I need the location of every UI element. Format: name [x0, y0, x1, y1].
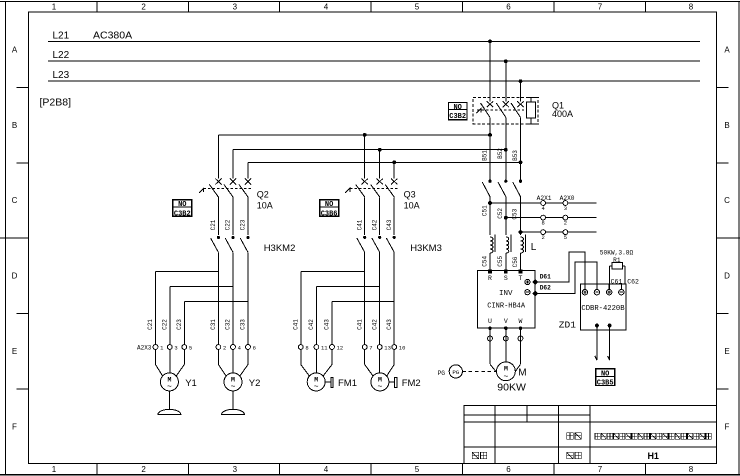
svg-text:E: E [12, 347, 17, 356]
title block outline [464, 406, 716, 464]
svg-text:C23: C23 [176, 319, 183, 330]
node feed taps on Q1 drops [488, 133, 492, 137]
svg-text:C43: C43 [386, 319, 393, 330]
bus L23 wire [48, 80, 700, 82]
svg-text:5: 5 [415, 3, 420, 12]
svg-text:8: 8 [689, 3, 694, 12]
svg-text:B: B [12, 121, 17, 130]
wire row phase3 [521, 231, 597, 233]
breaker Q1 linkage dashed [477, 109, 524, 111]
wire C62 [624, 266, 626, 284]
svg-text:V: V [504, 318, 508, 325]
motor Y1 lead wires [155, 349, 157, 364]
motor FM2 lead wires [364, 349, 366, 364]
svg-text:C42: C42 [308, 319, 315, 330]
svg-text:A2X3: A2X3 [137, 344, 152, 351]
feed wire phase3 to Q2 [248, 161, 521, 163]
motor Y2 circle [224, 373, 242, 391]
svg-text:A: A [12, 46, 18, 55]
svg-text:5: 5 [189, 344, 192, 351]
inverter input terminals R S T [488, 270, 492, 274]
svg-text:H3KM2: H3KM2 [264, 243, 296, 254]
svg-text:C42: C42 [371, 319, 378, 330]
motor FM2 brake [389, 381, 395, 383]
wire C61 [609, 266, 611, 290]
svg-text:12: 12 [337, 344, 344, 351]
wire end arrows [595, 356, 597, 360]
svg-text:Y2: Y2 [249, 378, 261, 389]
svg-text:NO: NO [178, 201, 186, 209]
svg-text:C3B2: C3B2 [174, 210, 191, 218]
node bus taps for Q1 [488, 39, 492, 43]
bus L22 wire [48, 60, 700, 62]
svg-text:5: 5 [564, 234, 567, 241]
tap wires to FM1 phase2 [316, 286, 379, 288]
svg-text:C54: C54 [482, 256, 489, 267]
svg-text:6: 6 [506, 465, 511, 474]
svg-text:ZD1: ZD1 [559, 320, 576, 331]
breaker Q3 operating handle [345, 188, 350, 193]
svg-text:4: 4 [324, 3, 329, 12]
svg-text:B51: B51 [482, 150, 489, 161]
svg-text:C41: C41 [356, 219, 363, 230]
svg-text:C3B2: C3B2 [449, 113, 466, 121]
tap wires to FM1 phase1 [301, 271, 365, 273]
svg-text:~: ~ [167, 383, 172, 392]
wires H3KM2 down to Y2 [217, 252, 219, 344]
svg-text:C42: C42 [371, 219, 378, 230]
svg-text:2: 2 [564, 220, 567, 227]
breaker Q1 dashed enclosure [473, 98, 538, 124]
tap wires to Y1 phase1 [156, 271, 219, 273]
svg-text:6: 6 [506, 3, 511, 12]
braking unit terminals [584, 284, 586, 290]
left margin zone tick marks [17, 86, 29, 88]
inverter INV box CINR-HB4A [477, 270, 535, 328]
svg-text:C21: C21 [147, 319, 154, 330]
node feed taps for Q3 [363, 133, 367, 137]
breaker Q3 linkage dashed [350, 187, 398, 189]
svg-text:C43: C43 [386, 219, 393, 230]
svg-text:L: L [531, 242, 537, 253]
wire D61 [535, 252, 585, 289]
svg-text:6: 6 [253, 344, 256, 351]
svg-text:D61: D61 [540, 273, 551, 280]
svg-text:11: 11 [321, 344, 328, 351]
terminal circles for motor Y1 [153, 345, 158, 350]
braking unit ZD1 box CDBR-4220B [580, 284, 626, 330]
encoder PG circle [449, 365, 462, 378]
svg-text:~: ~ [377, 383, 382, 392]
svg-text:2: 2 [141, 465, 146, 474]
svg-text:C41: C41 [356, 319, 363, 330]
contactor H3KM2 poles [217, 236, 220, 239]
svg-text:NO: NO [601, 371, 609, 379]
svg-text:C32: C32 [225, 319, 232, 330]
svg-text:[P2B8]: [P2B8] [40, 97, 72, 109]
svg-text:C3B5: C3B5 [597, 380, 614, 388]
svg-text:H3KM3: H3KM3 [410, 243, 442, 254]
right margin zone tick marks [716, 86, 728, 88]
wire row to A2X1/A2X0 terminals phase1 [490, 202, 597, 204]
svg-text:90KW: 90KW [497, 381, 526, 393]
svg-text:7: 7 [369, 344, 372, 351]
svg-text:3: 3 [564, 205, 567, 212]
svg-text:D: D [724, 272, 730, 281]
svg-text:C23: C23 [240, 219, 247, 230]
svg-text:2: 2 [141, 3, 146, 12]
svg-text:S: S [504, 275, 508, 282]
encoder dashed link [462, 370, 496, 372]
svg-text:W: W [519, 318, 523, 325]
wires down from ZD1 [596, 326, 598, 361]
breaker Q2 poles [215, 179, 221, 185]
svg-text:C62: C62 [627, 278, 639, 285]
svg-text:B52: B52 [497, 148, 504, 159]
svg-text:NO: NO [325, 201, 333, 209]
svg-text:5: 5 [415, 465, 420, 474]
title block horizontal lines [464, 414, 590, 416]
svg-text:F: F [725, 422, 730, 431]
svg-text:Y1: Y1 [185, 378, 197, 389]
svg-text:2: 2 [541, 234, 544, 241]
contactor H3KM3 poles [363, 236, 366, 239]
svg-text:8: 8 [305, 344, 308, 351]
svg-text:7: 7 [598, 465, 603, 474]
svg-text:400A: 400A [552, 109, 573, 119]
svg-text:D: D [12, 272, 18, 281]
bottom zone strip dividers [96, 464, 98, 475]
svg-text:Q3: Q3 [404, 189, 416, 199]
svg-text:A: A [724, 46, 730, 55]
cross-reference box NO C3B6 for Q3 [320, 200, 339, 216]
svg-text:C: C [724, 196, 730, 205]
wires H3KM3 down to FM2 [364, 252, 366, 344]
svg-text:C52: C52 [497, 208, 504, 219]
tap wires to Y1 phase2 [170, 286, 233, 288]
cross-reference box NO C3B2 for Q2 [173, 200, 192, 216]
svg-text:C55: C55 [497, 256, 504, 267]
motor M circle [497, 362, 516, 381]
reactor L coils [490, 237, 493, 253]
svg-text:R: R [488, 275, 492, 282]
motor Y2 ground symbol [222, 409, 245, 414]
cross-reference box NO C3B2 for Q1 [449, 103, 468, 120]
svg-text:PG: PG [438, 370, 446, 377]
svg-text:C31: C31 [210, 319, 217, 330]
svg-text:4: 4 [324, 465, 329, 474]
svg-text:8: 8 [541, 220, 544, 227]
inverter DC minus terminal symbol [525, 290, 530, 295]
tap wires to FM1 phase3 [332, 301, 394, 303]
svg-text:Q2: Q2 [257, 189, 269, 199]
wire drops from buses to Q1 [489, 41, 491, 101]
braking unit bottom nodes [595, 324, 599, 328]
svg-text:D62: D62 [540, 285, 551, 292]
sheet bottom thick line [0, 474, 740, 476]
svg-text:C21: C21 [210, 219, 217, 230]
svg-text:T: T [519, 275, 523, 282]
breaker Q1 poles [487, 101, 493, 107]
terminal circles for motor FM2 [362, 345, 367, 350]
motor Y1 circle [160, 373, 178, 391]
svg-text:C43: C43 [324, 319, 331, 330]
motor Y1 ground wire [168, 391, 170, 410]
svg-text:FM1: FM1 [338, 378, 357, 389]
svg-text:~: ~ [231, 383, 236, 392]
top zone strip dividers [96, 2, 98, 13]
svg-text:PG: PG [452, 369, 459, 376]
svg-text:FM2: FM2 [402, 378, 421, 389]
wires feed taps down to Q3 [364, 135, 366, 179]
motor FM2 circle [371, 373, 389, 391]
terminal circles for motor Y2 [216, 345, 221, 350]
svg-text:10A: 10A [257, 200, 273, 210]
motor FM1 circle [307, 373, 325, 391]
resistor R1 body [612, 262, 622, 269]
title block vertical lines [494, 406, 496, 464]
svg-text:C51: C51 [481, 205, 488, 216]
motor Y2 lead wires [217, 349, 219, 364]
cross-reference box NO C3B5 [596, 369, 615, 386]
svg-text:~: ~ [314, 383, 319, 392]
motor FM1 lead wires [300, 349, 302, 364]
svg-text:C22: C22 [162, 319, 169, 330]
breaker Q2 operating handle [199, 188, 204, 193]
svg-text:13: 13 [384, 344, 391, 351]
svg-text:1: 1 [52, 3, 57, 12]
svg-text:L21: L21 [53, 30, 70, 41]
breaker Q3 poles [362, 179, 368, 185]
wire row phase2 [506, 217, 597, 219]
title block label XiangMu [567, 433, 573, 439]
breaker Q2 linkage dashed [204, 187, 252, 189]
centering mark left [0, 237, 29, 239]
breaker Q1 operating handle [476, 109, 481, 113]
svg-text:10: 10 [399, 344, 406, 351]
svg-text:3: 3 [233, 3, 238, 12]
centering mark right [716, 237, 740, 239]
motor FM1 brake [325, 381, 331, 383]
svg-text:50KW,3.8Ω: 50KW,3.8Ω [600, 249, 634, 256]
tap wires to Y1 phase3 [184, 301, 248, 303]
svg-text:C56: C56 [512, 256, 519, 267]
svg-text:B53: B53 [512, 150, 519, 161]
feed wire phase1 to Q2 [218, 134, 490, 136]
bus L21 wire [48, 40, 700, 42]
svg-text:3: 3 [174, 344, 177, 351]
svg-text:B: B [724, 121, 729, 130]
inverter terminal diamonds [533, 280, 538, 285]
svg-text:10A: 10A [404, 200, 420, 210]
motor Y1 ground symbol [158, 409, 181, 414]
terminal circles for motor FM1 [298, 345, 303, 350]
svg-text:CDBR-4220B: CDBR-4220B [581, 305, 625, 313]
svg-text:AC380A: AC380A [93, 29, 132, 41]
wire D62 [535, 262, 597, 293]
svg-text:M: M [504, 366, 508, 373]
motor M lead wires [489, 341, 491, 364]
svg-text:C41: C41 [293, 319, 300, 330]
svg-text:C3B6: C3B6 [321, 210, 338, 218]
svg-text:C33: C33 [240, 319, 247, 330]
motor Y2 ground wire [232, 391, 234, 410]
svg-text:INV: INV [499, 290, 513, 298]
svg-text:L23: L23 [53, 70, 70, 81]
svg-text:H1: H1 [647, 451, 659, 461]
inverter output terminal dots [488, 326, 492, 330]
svg-text:2: 2 [223, 344, 226, 351]
svg-text:C: C [12, 196, 18, 205]
svg-text:C61: C61 [611, 278, 623, 285]
svg-text:3: 3 [233, 465, 238, 474]
svg-text:1: 1 [52, 465, 57, 474]
wires Q1 to line contactor [489, 124, 491, 180]
svg-text:L22: L22 [53, 50, 70, 61]
cable gland rings [488, 336, 493, 341]
svg-text:M: M [518, 368, 526, 379]
svg-text:7: 7 [598, 3, 603, 12]
inverter DC plus terminal symbol [525, 279, 530, 284]
svg-text:8: 8 [689, 465, 694, 474]
svg-text:E: E [724, 347, 729, 356]
title block label TuHao [567, 452, 573, 458]
outer border right [738, 2, 740, 475]
svg-text:CINR-HB4A: CINR-HB4A [487, 303, 526, 311]
line contactor poles [488, 180, 491, 183]
svg-text:U: U [488, 318, 492, 325]
wires feed corners down to Q2 [217, 135, 219, 179]
wires INV to motor M [489, 328, 491, 341]
terminal circles on A2X rows [541, 201, 546, 206]
title block label TuMing [472, 452, 478, 458]
outer border top [0, 1, 740, 3]
svg-text:NO: NO [453, 104, 461, 112]
title block project title [595, 433, 600, 439]
svg-text:C22: C22 [225, 219, 232, 230]
feed wire phase2 to Q2 [233, 149, 506, 151]
svg-text:F: F [12, 422, 17, 431]
outer border left [4, 2, 6, 475]
breaker Q1 trip element rectangle [527, 102, 536, 118]
